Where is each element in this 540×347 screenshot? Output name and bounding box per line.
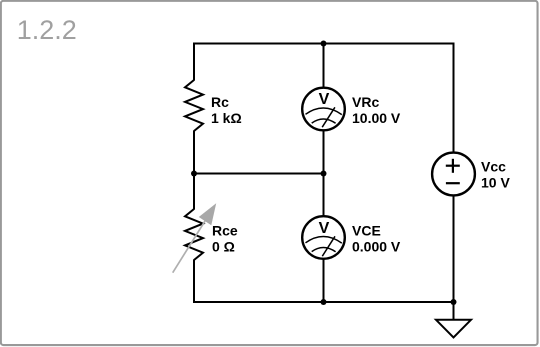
svg-text:10.00 V: 10.00 V (352, 110, 401, 126)
node junction bottom center (321, 299, 327, 305)
label VRc reading (352, 94, 401, 126)
variable-resistor arrow head (199, 203, 216, 225)
label Vcc value (481, 159, 510, 191)
ground (436, 320, 471, 338)
wire left vertical Rce to bottom (193, 260, 195, 304)
node junction top (VRc tap) (321, 41, 327, 47)
label VCE reading (352, 223, 401, 255)
svg-text:0 Ω: 0 Ω (212, 239, 235, 255)
wire middle vertical VRc to middle node (323, 130, 325, 175)
voltmeter VCE (302, 216, 345, 259)
svg-text:1.2.2: 1.2.2 (17, 15, 77, 45)
wire bottom horizontal (194, 301, 454, 303)
node junction middle right (321, 171, 327, 177)
svg-text:Rce: Rce (212, 223, 238, 239)
label Rce value (212, 223, 238, 255)
resistor Rc (185, 80, 203, 131)
wire middle vertical VCE to bottom (323, 258, 325, 302)
wire right vertical top to Vcc (453, 43, 455, 154)
wire left vertical top (to Rc) (193, 43, 195, 81)
variable-resistor arrow shaft (173, 221, 205, 273)
svg-text:V: V (319, 220, 330, 237)
wire left vertical middle node to Rce (193, 174, 195, 210)
svg-text:10 V: 10 V (481, 175, 510, 191)
wire middle vertical middle node to VCE (323, 174, 325, 218)
resistor Rce (variable) (185, 209, 203, 260)
voltmeter VRc (302, 88, 345, 131)
wire left vertical Rc to middle node (193, 131, 195, 175)
label Rc value (211, 94, 242, 126)
wire right vertical Vcc to bottom (453, 195, 455, 303)
svg-text:Vcc: Vcc (481, 159, 506, 175)
svg-text:VRc: VRc (352, 94, 379, 110)
wire middle horizontal (194, 173, 324, 175)
wire middle vertical top to VRc (323, 44, 325, 89)
svg-text:Rc: Rc (211, 94, 229, 110)
wire top horizontal (194, 43, 454, 45)
node junction bottom right (ground tap) (451, 299, 457, 305)
wire ground stub (453, 302, 455, 320)
node junction middle left (191, 171, 197, 177)
svg-text:1 kΩ: 1 kΩ (211, 110, 242, 126)
voltage source Vcc (432, 153, 475, 196)
svg-text:0.000 V: 0.000 V (352, 239, 401, 255)
svg-text:V: V (319, 91, 330, 108)
svg-text:VCE: VCE (352, 223, 381, 239)
